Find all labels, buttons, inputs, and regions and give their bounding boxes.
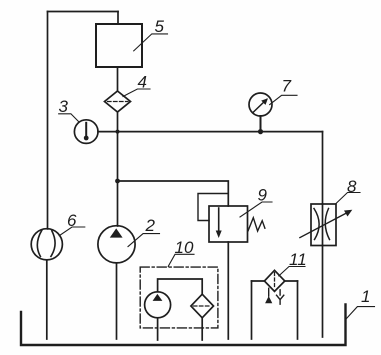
wire: main horizontal line xyxy=(98,131,323,133)
pump N2 xyxy=(98,226,135,263)
breather 11 left pipe xyxy=(251,281,253,339)
filter of unit 10 xyxy=(191,294,214,318)
wire: pump 10 suction into tank xyxy=(157,318,159,340)
wire: pilot line of valve 9 xyxy=(198,194,228,221)
relief valve KP9 xyxy=(209,206,248,242)
breather 11 check valve (left leg) xyxy=(268,288,270,296)
wire: valve 9 outlet to tank xyxy=(227,242,229,339)
gauge MN7 stem xyxy=(260,116,262,132)
wire: stubs to breather diamond xyxy=(252,280,298,282)
wire: right vertical to throttle 8 xyxy=(322,132,324,204)
svg-text:8: 8 xyxy=(347,177,357,196)
wire: pump 2 suction xyxy=(116,263,118,339)
svg-text:5: 5 xyxy=(155,17,165,36)
arrow: throttle adjustment xyxy=(300,212,349,238)
svg-text:1: 1 xyxy=(361,287,370,306)
wire: filter 10 return into tank xyxy=(201,318,203,340)
svg-text:3: 3 xyxy=(59,97,69,116)
wire: left main vertical (lower) into tank xyxy=(46,260,48,339)
node: branch junction xyxy=(115,179,120,184)
wire: throttle 8 down into tank xyxy=(322,246,324,338)
node: junction main vertical / horizontal xyxy=(116,130,120,134)
wire: branch to valve 9 xyxy=(118,181,229,206)
wire: stub into tank 5 xyxy=(117,12,119,25)
wire: tank 5 to filter 4 xyxy=(117,67,119,91)
throttle DR8 xyxy=(311,204,336,246)
spring of valve 9 xyxy=(248,218,265,231)
thermometer T3 xyxy=(74,120,98,144)
unit 10 enclosure (dash-dot) xyxy=(140,267,218,328)
tank 1 (reservoir) xyxy=(21,305,346,346)
gauge MN7 xyxy=(249,93,272,116)
breather F11 diamond xyxy=(264,270,284,291)
breather 11 drain Y (right leg) xyxy=(277,290,284,304)
pump of unit 10 xyxy=(145,292,171,318)
breather 11 right pipe xyxy=(297,281,299,339)
wire: top horizontal xyxy=(48,11,119,13)
svg-text:7: 7 xyxy=(282,77,292,96)
wire: left main vertical (upper) xyxy=(47,12,49,229)
wire: filter 4 down to pump 2 xyxy=(117,112,119,226)
wire: pump 10 to filter 10 xyxy=(158,279,203,294)
filter F4 xyxy=(105,91,131,112)
flow indicator 6 xyxy=(31,229,62,260)
node: gauge junction xyxy=(258,129,263,134)
tank 5 xyxy=(96,24,142,67)
svg-text:2: 2 xyxy=(145,216,156,235)
